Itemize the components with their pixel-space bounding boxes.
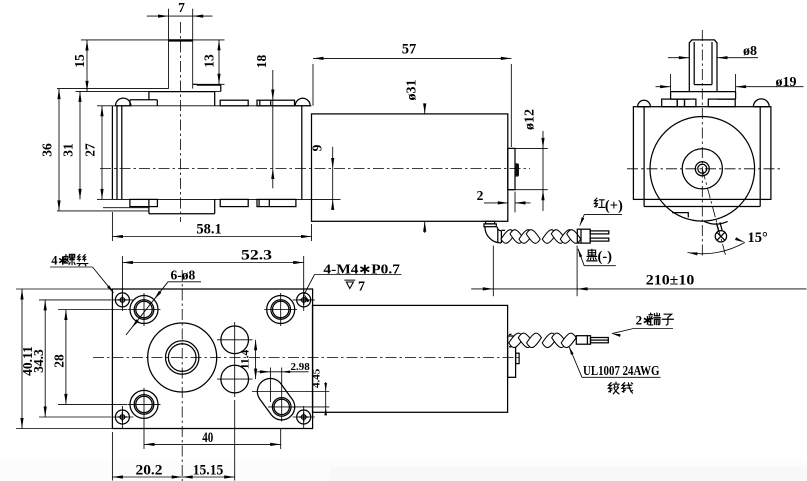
svg-text:11.4: 11.4 [240,350,252,370]
svg-text:(+): (+) [605,198,623,214]
svg-text:15.15: 15.15 [193,462,224,478]
svg-text:ø12: ø12 [522,109,537,130]
svg-text:52.3: 52.3 [241,247,272,263]
svg-text:ø8: ø8 [743,44,757,59]
svg-text:ø31: ø31 [405,80,420,101]
svg-text:9: 9 [310,144,325,151]
svg-text:7: 7 [178,0,185,15]
svg-text:36: 36 [40,143,55,157]
svg-text:(-): (-) [598,249,613,265]
svg-text:ø19: ø19 [776,75,797,90]
svg-text:40: 40 [202,430,213,446]
svg-text:57: 57 [402,42,417,58]
svg-text:15°: 15° [748,230,769,246]
svg-text:4.45: 4.45 [310,368,322,388]
svg-text:6-ø8: 6-ø8 [171,268,196,283]
svg-text:13: 13 [202,54,217,68]
svg-text:27: 27 [83,143,98,157]
svg-text:210±10: 210±10 [646,273,695,289]
svg-text:UL1007 24AWG: UL1007 24AWG [583,363,660,378]
svg-text:7: 7 [358,280,365,295]
svg-text:18: 18 [254,55,269,69]
svg-text:31: 31 [61,143,76,157]
svg-text:34.3: 34.3 [31,349,46,373]
svg-text:58.1: 58.1 [196,222,221,238]
svg-text:15: 15 [72,54,87,68]
svg-text:2: 2 [477,188,484,203]
svg-text:20.2: 20.2 [136,462,163,478]
svg-text:28: 28 [52,354,67,368]
